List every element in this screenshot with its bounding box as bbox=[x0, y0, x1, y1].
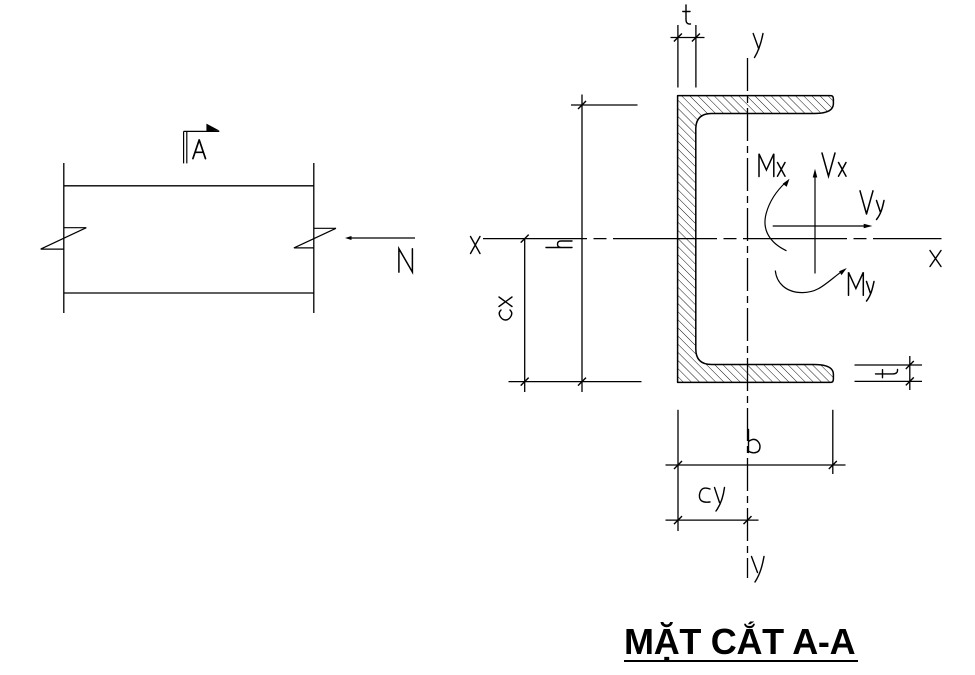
beam top chord bbox=[64, 185, 314, 187]
b dim line bbox=[666, 464, 846, 466]
Vx arrow (vertical) bbox=[814, 175, 816, 274]
label h (rotated) bbox=[546, 241, 572, 248]
label y (top of y axis) bbox=[753, 34, 763, 58]
tick h bottom bbox=[578, 378, 586, 386]
cy dim line bbox=[666, 519, 759, 521]
beam right column line bbox=[313, 163, 315, 313]
tick cx top (on x axis) bbox=[521, 235, 529, 243]
force N arrow bbox=[348, 237, 415, 239]
label cx (rotated) bbox=[499, 297, 512, 320]
label Vx bbox=[822, 153, 846, 176]
tick b left bbox=[674, 461, 682, 469]
cx dim line vertical bbox=[524, 239, 526, 392]
beam bottom chord bbox=[64, 292, 314, 294]
tick bbox=[692, 34, 700, 42]
bottom extension line (shared by h and cx) bbox=[509, 381, 642, 383]
label b bbox=[749, 429, 761, 452]
t dim extension lines bbox=[677, 25, 679, 88]
t dim line vertical bbox=[909, 356, 911, 390]
tick cy right bbox=[744, 516, 752, 524]
channel section outline with hatch bbox=[678, 96, 834, 383]
left break symbol bbox=[41, 228, 87, 249]
beam left column line bbox=[63, 163, 65, 313]
label cy bbox=[699, 488, 724, 512]
label Mx bbox=[759, 154, 785, 177]
tick b right bbox=[829, 461, 837, 469]
t ext line top bbox=[855, 364, 923, 366]
section cut marker A: double bar bbox=[184, 131, 220, 163]
h dim line vertical bbox=[581, 95, 583, 393]
label x (left end of x axis) bbox=[471, 237, 481, 254]
section marker flag arrow bbox=[206, 124, 219, 132]
Vy arrow (horizontal) bbox=[773, 225, 866, 227]
b right extension line bbox=[832, 410, 834, 474]
Mx curved arrow bbox=[765, 183, 787, 251]
section title MAT CAT A-A bbox=[624, 623, 860, 661]
x axis centerline bbox=[483, 238, 942, 240]
label t (rotated) bbox=[876, 370, 898, 378]
label My bbox=[849, 272, 875, 301]
label y (bottom of y axis) bbox=[752, 557, 765, 583]
label Vy bbox=[860, 191, 884, 220]
t ext line bottom bbox=[855, 380, 923, 382]
tick bbox=[578, 101, 586, 109]
right break symbol bbox=[294, 228, 336, 248]
b left extension line bbox=[677, 410, 679, 531]
tick cx bottom bbox=[521, 378, 529, 386]
tick t top bbox=[906, 361, 914, 369]
tick t bottom bbox=[906, 377, 914, 385]
label t (top) bbox=[683, 5, 691, 24]
My curved arrow bbox=[775, 271, 842, 293]
tick bbox=[674, 34, 682, 42]
title underline bbox=[624, 660, 858, 662]
tick cy left bbox=[674, 516, 682, 524]
t dim line bbox=[671, 37, 705, 39]
label N bbox=[399, 249, 413, 272]
label x (right end of x axis) bbox=[930, 251, 941, 267]
letter A of section marker bbox=[193, 140, 206, 159]
y axis centerline bbox=[747, 58, 749, 578]
h top extension line bbox=[571, 104, 638, 106]
